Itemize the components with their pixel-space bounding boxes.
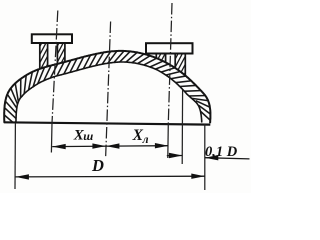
svg-text:0,1 D: 0,1 D	[205, 144, 238, 160]
dimension line D	[15, 175, 204, 178]
head vertical centerline (dash-dot)	[106, 22, 111, 159]
dimension line 0.1D, left outside shaft	[167, 155, 183, 157]
extension line, right end of D	[204, 124, 206, 190]
dished head shell (cross-section band with hatching)	[3, 50, 212, 126]
left nozzle wall (left side), hatched section	[10, 16, 78, 103]
right nozzle centerline (dash-dot)	[168, 3, 172, 158]
dimension line 0.1D, right outside shaft	[205, 158, 250, 159]
right nozzle flange	[146, 43, 193, 53]
extension line, 0.1D edge-zone boundary	[181, 90, 183, 164]
label X_sh	[73, 128, 93, 144]
left nozzle flange	[32, 34, 72, 43]
right nozzle wall (right side), hatched section	[144, 23, 215, 111]
arrowheads of dimension lines	[15, 143, 218, 180]
extension line, left end of D	[14, 123, 16, 189]
svg-text:ш: ш	[83, 129, 93, 143]
left nozzle wall (right side), hatched section	[28, 14, 96, 101]
head base (tangent) line	[4, 122, 211, 124]
dimension line Xsh / Xl	[52, 145, 168, 148]
left nozzle centerline (dash-dot)	[51, 11, 57, 153]
svg-text:л: л	[142, 134, 149, 146]
label X_l	[132, 127, 149, 146]
svg-text:D: D	[91, 156, 104, 175]
right nozzle wall (left side), hatched section	[129, 19, 193, 104]
